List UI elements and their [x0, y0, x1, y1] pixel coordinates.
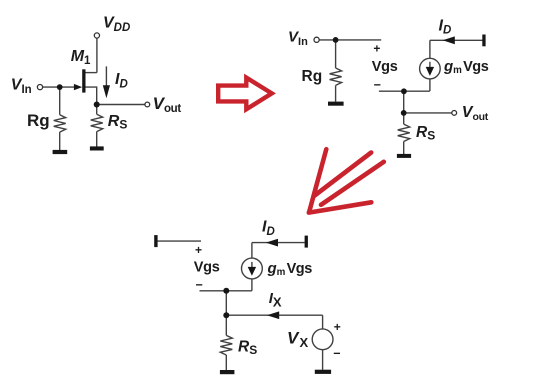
wire IX rail: [226, 314, 322, 316]
wire node down to vout node: [403, 91, 405, 113]
junction dot vgs minus node (right circuit): [401, 88, 407, 94]
svg-text:+: +: [195, 243, 202, 257]
wire Rg bottom lead: [59, 132, 61, 150]
terminal circle Vin (left): [37, 85, 42, 90]
wire current source top lead (bottom): [251, 243, 253, 259]
wire Rg top lead (right circuit): [335, 40, 337, 68]
resistor RS zigzag (left circuit): [91, 114, 103, 131]
junction dot vgs minus node (bottom circuit): [223, 288, 229, 294]
current source inner arrow line (bottom): [251, 262, 253, 270]
transistor M1 channel bar: [82, 69, 85, 92]
AC ground bar top right: [482, 35, 485, 47]
current source circle (right circuit): [420, 58, 441, 79]
wire vgs minus rail: [379, 90, 430, 92]
svg-text:gmVgs: gmVgs: [267, 260, 313, 278]
wire Vin to open end: [319, 39, 381, 41]
wire node down: [225, 291, 227, 315]
wire current source bottom lead: [429, 79, 431, 91]
wire Rg bottom lead (right circuit): [335, 85, 337, 101]
svg-text:Rg: Rg: [27, 111, 50, 130]
wire Rg top lead: [59, 87, 61, 115]
red arrow shaft 2: [321, 162, 384, 205]
current source inner arrowhead (right circuit): [426, 67, 434, 76]
svg-text:Vgs: Vgs: [372, 59, 398, 75]
terminal circle Vout (left): [145, 102, 150, 107]
svg-text:−: −: [374, 78, 381, 92]
terminal circle Vout (right): [452, 111, 457, 116]
wire current source top lead: [429, 40, 431, 58]
red arrow shaft 1: [314, 153, 371, 197]
junction dot Vin node (right circuit): [333, 37, 339, 43]
wire vgs minus rail (bottom): [200, 290, 252, 292]
wire RS top lead (left circuit): [96, 105, 98, 115]
red arrow barb upper: [309, 149, 326, 212]
current source circle (bottom): [242, 258, 263, 279]
resistor Rg zigzag (right circuit): [330, 68, 342, 85]
wire to Vout terminal: [404, 112, 452, 114]
resistor Rg zigzag: [54, 115, 66, 132]
wire gate from Vin: [43, 86, 75, 88]
svg-text:Vgs: Vgs: [194, 260, 220, 276]
wire VX top lead: [322, 315, 324, 329]
current ID arrow line (left circuit): [105, 66, 107, 86]
wire RS bottom lead (left circuit): [96, 132, 98, 147]
wire current source bottom lead (bottom): [251, 279, 253, 291]
svg-text:Rg: Rg: [302, 68, 323, 85]
current ID arrowhead (bottom circuit): [266, 239, 278, 247]
terminal circle Vin (right): [314, 37, 319, 42]
current ID arrowhead (left circuit): [103, 85, 110, 98]
wire Vout: [97, 104, 145, 106]
red arrow barb lower: [309, 202, 372, 212]
svg-text:−: −: [196, 278, 203, 292]
ground Rg (right circuit): [328, 102, 344, 106]
current IX arrowhead: [267, 311, 279, 319]
wire RS top lead (right circuit): [403, 113, 405, 124]
wire VDD vertical: [96, 38, 98, 73]
resistor RS zigzag (right circuit): [398, 124, 410, 141]
ground RS (right circuit): [397, 154, 411, 158]
current source inner arrow line: [429, 62, 431, 71]
AC ground bar right (bottom circuit): [305, 236, 308, 248]
svg-text:+: +: [373, 42, 380, 56]
svg-text:−: −: [333, 346, 340, 360]
wire vgs plus open lead: [156, 240, 201, 242]
transistor M1 gate arrowhead: [74, 84, 82, 90]
ground RS (left circuit): [90, 146, 104, 150]
source VX circle: [312, 329, 333, 350]
AC ground bar left (bottom circuit): [154, 235, 157, 247]
wire RS bottom lead (right circuit): [403, 142, 405, 155]
ground RS (bottom circuit): [220, 370, 235, 374]
junction dot Vout node (right circuit): [401, 110, 407, 116]
resistor RS zigzag (bottom circuit): [220, 335, 232, 355]
ground VX (bottom circuit): [315, 370, 331, 374]
current source inner arrowhead (bottom circuit): [248, 267, 256, 276]
wire drain horizontal: [85, 72, 97, 74]
svg-text:+: +: [334, 320, 341, 334]
wire top rail with ID (bottom circuit): [252, 242, 305, 244]
ground Rg (left circuit): [53, 150, 68, 154]
junction dot gate node: [57, 84, 63, 90]
wire top rail with ID: [430, 39, 483, 41]
current ID arrowhead on top rail (right circuit): [443, 36, 455, 44]
wire RS bottom lead (bottom circuit): [225, 355, 227, 370]
junction dot source node: [94, 102, 100, 108]
wire VX bottom lead: [322, 350, 324, 370]
junction dot IX node (bottom circuit): [223, 312, 229, 318]
wire RS top lead (bottom circuit): [225, 315, 227, 335]
terminal circle VDD: [94, 33, 99, 38]
red block arrow: [218, 78, 272, 110]
wire source: [85, 87, 96, 102]
svg-text:gmVgs: gmVgs: [443, 58, 489, 76]
